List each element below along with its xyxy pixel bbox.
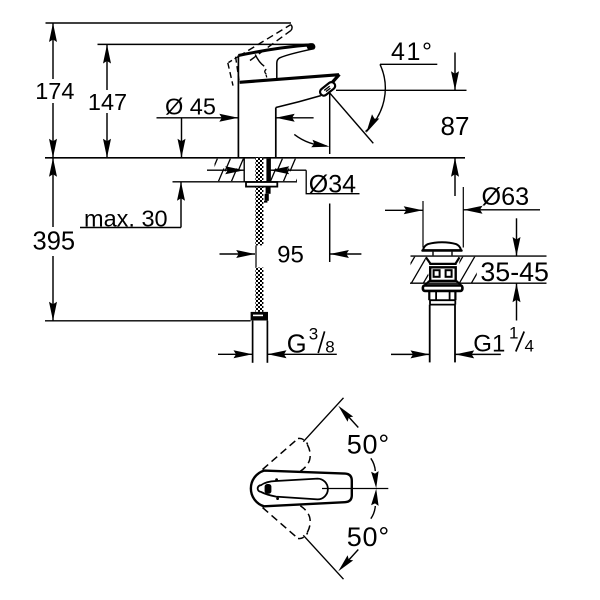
- svg-text:Ø63: Ø63: [482, 183, 530, 211]
- svg-text:4: 4: [525, 337, 534, 356]
- svg-text:395: 395: [33, 228, 76, 256]
- svg-text:max. 30: max. 30: [84, 205, 168, 231]
- svg-text:1: 1: [509, 324, 518, 343]
- svg-text:50°: 50°: [347, 522, 390, 552]
- svg-text:87: 87: [441, 111, 470, 141]
- svg-text:35-45: 35-45: [480, 257, 549, 287]
- svg-text:G: G: [287, 330, 307, 358]
- svg-text:147: 147: [88, 89, 127, 115]
- svg-text:50°: 50°: [347, 429, 390, 459]
- svg-text:G1: G1: [473, 330, 505, 357]
- svg-text:Ø34: Ø34: [309, 170, 356, 198]
- svg-text:174: 174: [35, 78, 74, 104]
- svg-text:8: 8: [325, 337, 334, 356]
- svg-text:95: 95: [277, 242, 304, 269]
- svg-text:3: 3: [309, 325, 318, 344]
- svg-text:Ø 45: Ø 45: [165, 94, 216, 120]
- svg-text:41°: 41°: [391, 38, 434, 66]
